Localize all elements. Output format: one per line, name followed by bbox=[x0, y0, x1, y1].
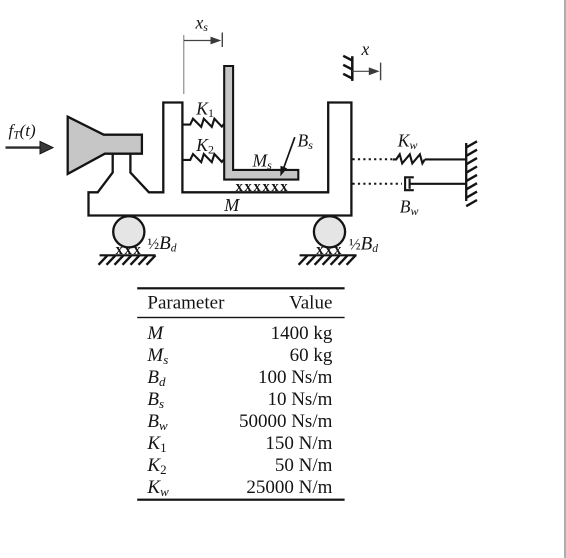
svg-text:Ms: Ms bbox=[252, 151, 273, 173]
wall hatching bbox=[466, 141, 477, 206]
svg-text:Kw: Kw bbox=[146, 477, 169, 499]
horn (speaker) gray body bbox=[68, 117, 142, 174]
fixed wall (right) bbox=[465, 143, 467, 201]
svg-text:M: M bbox=[223, 195, 240, 215]
Bs pointer arrow bbox=[284, 137, 295, 168]
svg-text:Bs: Bs bbox=[147, 389, 164, 411]
svg-text:Bs: Bs bbox=[298, 131, 314, 153]
svg-text:K2: K2 bbox=[146, 455, 166, 477]
xs dimension: arrow bbox=[184, 40, 212, 42]
svg-text:Value: Value bbox=[289, 293, 332, 314]
svg-text:½Bd: ½Bd bbox=[148, 233, 177, 254]
svg-text:100 Ns/m: 100 Ns/m bbox=[258, 367, 333, 388]
svg-text:Kw: Kw bbox=[397, 131, 418, 153]
wheel right bbox=[314, 216, 345, 247]
spring K2 bbox=[182, 154, 224, 162]
svg-text:Parameter: Parameter bbox=[147, 293, 225, 314]
wheel left bbox=[113, 216, 144, 247]
damper Bw cylinder bbox=[405, 177, 414, 190]
svg-text:Bw: Bw bbox=[400, 197, 419, 219]
table top rule bbox=[137, 287, 344, 289]
mass Ms (L-shape) bbox=[224, 66, 298, 180]
svg-text:50000 Ns/m: 50000 Ns/m bbox=[239, 411, 333, 432]
svg-text:Ms: Ms bbox=[146, 345, 168, 367]
svg-text:10 Ns/m: 10 Ns/m bbox=[267, 389, 332, 410]
spring K1 bbox=[182, 119, 224, 127]
svg-text:25000 N/m: 25000 N/m bbox=[246, 477, 332, 498]
table mid rule bbox=[137, 317, 344, 318]
svg-text:150 N/m: 150 N/m bbox=[265, 433, 332, 454]
cart M outline (base, pedestal, left post, right wall) bbox=[89, 103, 352, 216]
svg-text:½Bd: ½Bd bbox=[349, 234, 378, 255]
spring Kw bbox=[393, 154, 425, 163]
svg-text:K1: K1 bbox=[146, 433, 166, 455]
ground under right wheel bbox=[300, 254, 357, 256]
x dimension: anchor symbol bbox=[351, 56, 354, 81]
x dimension: end tick bbox=[380, 63, 382, 81]
xs dimension: end tick bbox=[221, 33, 223, 48]
damper Bw rod to wall bbox=[410, 183, 467, 185]
svg-text:K1: K1 bbox=[195, 99, 214, 121]
xs dimension: reference line bbox=[183, 35, 185, 94]
input force arrow fT(t) bbox=[6, 146, 42, 148]
svg-text:xxxxxx: xxxxxx bbox=[236, 179, 290, 195]
page right edge border bbox=[564, 0, 566, 558]
x dimension: arrow bbox=[352, 70, 370, 72]
dotted link to Kw bbox=[353, 158, 393, 160]
svg-text:1400 kg: 1400 kg bbox=[271, 323, 333, 344]
svg-text:Bw: Bw bbox=[147, 411, 168, 433]
rod from Kw to wall bbox=[425, 158, 466, 160]
svg-text:M: M bbox=[146, 323, 164, 344]
ground under left wheel bbox=[100, 254, 156, 256]
table bottom rule bbox=[137, 499, 344, 501]
dotted link to Bw bbox=[353, 183, 403, 185]
svg-text:fT(t): fT(t) bbox=[9, 121, 37, 142]
svg-text:60 kg: 60 kg bbox=[290, 345, 333, 366]
svg-text:x: x bbox=[361, 39, 370, 59]
damper Bw piston plate bbox=[409, 179, 411, 189]
svg-text:K2: K2 bbox=[195, 135, 214, 157]
svg-text:xs: xs bbox=[195, 13, 209, 35]
svg-text:50 N/m: 50 N/m bbox=[275, 455, 333, 476]
svg-text:Bd: Bd bbox=[147, 367, 166, 389]
